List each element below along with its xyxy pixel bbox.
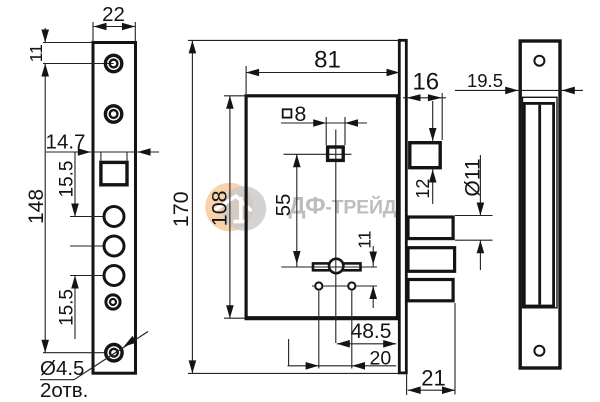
svg-text:12: 12	[413, 179, 433, 199]
ext left circle down	[318, 291, 320, 369]
dim 19.5 arrow left	[505, 87, 518, 95]
dim 22 arrow right	[122, 23, 135, 31]
leader top edge	[43, 42, 92, 44]
dim 21 ext right	[454, 303, 456, 395]
fix circles leader	[312, 285, 377, 287]
square extension left	[100, 152, 102, 161]
lever hub	[329, 259, 343, 273]
slot thin boundary	[523, 97, 558, 307]
svg-text:2отв.: 2отв.	[40, 379, 88, 402]
dim diameter 11 lower line	[479, 240, 481, 270]
dim 22 arrow left	[94, 23, 107, 31]
svg-text:22: 22	[102, 3, 125, 26]
svg-text:19.5: 19.5	[467, 70, 503, 91]
bolt 1	[408, 217, 453, 239]
square cutout	[101, 162, 127, 184]
dim 16 line	[403, 97, 446, 99]
dim 148 arrow top	[41, 64, 49, 77]
dim 108 bottom leader	[224, 317, 245, 319]
dim 11 mid upper line	[372, 246, 374, 267]
leader circle A center	[70, 216, 116, 218]
dim 12 upper line	[432, 101, 434, 141]
latch bolt	[410, 143, 440, 168]
watermark logo white chevron	[214, 196, 252, 211]
dim 170 arrow bottom	[189, 360, 197, 373]
body outline	[246, 96, 397, 318]
dim 108 line	[229, 96, 231, 318]
dim 8 arrow left	[313, 119, 326, 127]
lever leader	[281, 266, 377, 268]
screw hole top inner	[110, 60, 118, 68]
dim 108 arrow top	[226, 96, 234, 109]
dim 170 arrow top	[189, 40, 197, 53]
dim 22 line	[94, 26, 136, 28]
dim 11 mid lower line	[372, 286, 374, 308]
lever leader inner	[313, 266, 360, 268]
backplate strip	[399, 40, 406, 373]
dim 108 arrow bottom	[226, 305, 234, 318]
dim 108 top leader	[224, 95, 245, 97]
strike screw top	[534, 56, 544, 66]
dim diameter 11 upper line	[479, 155, 481, 216]
dim 81 extension	[245, 66, 247, 94]
screw hole 2 inner	[110, 110, 118, 118]
dim 20 arrow right	[352, 362, 365, 370]
svg-text:Ø4.5: Ø4.5	[40, 357, 84, 380]
svg-text:20: 20	[370, 347, 392, 369]
big hole A	[104, 207, 124, 227]
diameter leader arrow	[124, 336, 137, 347]
dim 81 arrow right	[387, 69, 400, 77]
watermark logo white stem	[234, 197, 248, 222]
bolt top leader	[455, 215, 493, 217]
svg-text:8: 8	[294, 102, 306, 126]
dim 170 line	[191, 40, 193, 373]
screw hole top outer	[105, 55, 121, 71]
dim 14.7 arrow left	[78, 148, 91, 156]
dim 8 extension left	[325, 117, 327, 145]
dim 16 extension	[441, 93, 443, 140]
dim 21 arrow right	[442, 386, 455, 394]
dim 14.7 arrow right	[138, 148, 151, 156]
slot center rib	[538, 105, 541, 305]
dim 170 top leader	[188, 39, 399, 41]
dim 21 arrow left	[408, 386, 421, 394]
dim 48.5 arrow left	[337, 340, 350, 348]
dim 48.5 line	[337, 343, 396, 345]
small hole outer	[106, 295, 120, 309]
ext tick	[288, 339, 290, 366]
faceplate outline	[93, 43, 136, 374]
strike screw bottom	[534, 346, 544, 356]
fix circle right	[348, 282, 355, 289]
dim 21 ext left	[406, 375, 408, 396]
fix circle left	[315, 282, 322, 289]
lever centerline inner	[335, 259, 337, 274]
svg-text:81: 81	[314, 47, 341, 74]
slot main rect	[524, 103, 553, 306]
body bottom edge overlay	[245, 316, 400, 320]
svg-text:16: 16	[412, 69, 439, 96]
crosshair horizontal square leader	[284, 153, 352, 155]
dim 8 arrow right	[345, 119, 358, 127]
dim 20 arrow left	[306, 362, 319, 370]
square extension right	[126, 152, 128, 161]
dim 11 line top arrow	[44, 28, 46, 43]
svg-text:ДФ-ТРЕЙД: ДФ-ТРЕЙД	[289, 193, 397, 220]
bottom screw outer	[106, 345, 122, 361]
strike plate outline	[520, 41, 560, 368]
watermark logo gray circle	[222, 186, 267, 231]
dim 16 arrow right	[428, 94, 442, 101]
dim 15.5 upper line	[74, 152, 76, 217]
leader bottom screw	[43, 352, 114, 354]
bolt 2	[408, 248, 455, 272]
svg-text:21: 21	[421, 365, 445, 390]
dim 170 bottom leader	[188, 372, 406, 374]
dim 21 line	[408, 389, 455, 391]
crosshair vertical centerline	[335, 130, 337, 344]
svg-text:48.5: 48.5	[351, 320, 392, 343]
bottom screw inner	[110, 349, 118, 357]
svg-text:148: 148	[25, 189, 48, 224]
dim 19.5 line	[455, 89, 583, 91]
dim 55 line	[296, 154, 298, 266]
ext right circle down	[351, 291, 353, 369]
svg-text:55: 55	[272, 194, 295, 217]
dim 15.5 upper arrow	[71, 204, 79, 217]
dim 15.5 lower arrow	[71, 276, 79, 289]
svg-text:11: 11	[355, 231, 375, 249]
square symbol	[283, 109, 292, 117]
dim 22 extension left	[92, 22, 94, 41]
big hole B	[104, 236, 124, 256]
dim 48.5 arrow right	[383, 340, 396, 348]
dim 148 line	[44, 64, 46, 353]
dim 15.5 lower line	[74, 276, 76, 340]
svg-text:170: 170	[169, 191, 193, 227]
svg-text:15.5: 15.5	[57, 289, 78, 326]
leader circle C center	[70, 275, 116, 277]
dim 148 arrow bottom	[41, 340, 49, 353]
dim 81 arrow left	[246, 69, 259, 77]
dim 16 arrow left	[407, 94, 421, 101]
dim 8 extension right	[344, 117, 346, 145]
dim 20 line	[288, 365, 397, 367]
dim 14.7 line	[46, 151, 159, 153]
spindle square hole	[328, 147, 344, 160]
bolt bottom leader	[455, 239, 493, 241]
svg-text:11: 11	[26, 44, 46, 62]
dim 8 line	[281, 122, 367, 124]
screw hole 2 outer	[105, 106, 121, 122]
svg-text:108: 108	[207, 190, 231, 226]
leader circle B center	[70, 245, 116, 247]
leader screw1 center	[43, 63, 114, 65]
dim 19.5 arrow right	[562, 87, 575, 95]
small hole inner	[110, 299, 116, 305]
dim 12 lower line	[432, 170, 434, 205]
lever left wing	[313, 263, 332, 270]
big hole C	[104, 266, 124, 286]
bolt 3	[408, 280, 453, 301]
svg-text:Ø11: Ø11	[461, 158, 484, 196]
svg-text:14.7: 14.7	[46, 131, 86, 154]
dim 81 line	[246, 72, 399, 74]
dim 22 extension right	[134, 22, 136, 41]
svg-text:15.5: 15.5	[57, 161, 78, 198]
dim 55 arrow bottom	[293, 251, 301, 264]
dim 55 arrow top	[293, 154, 301, 167]
diameter leader line	[40, 332, 148, 380]
lever right wing	[342, 263, 361, 270]
watermark logo orange circle	[205, 183, 253, 231]
